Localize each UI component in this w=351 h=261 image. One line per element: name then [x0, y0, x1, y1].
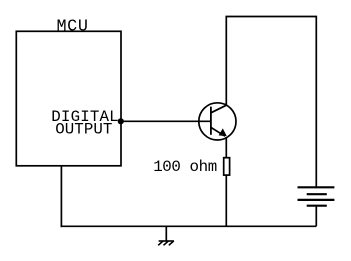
svg-text:100 ohm: 100 ohm [153, 158, 217, 176]
svg-text:MCU: MCU [57, 18, 88, 37]
svg-text:OUTPUT: OUTPUT [55, 121, 112, 139]
